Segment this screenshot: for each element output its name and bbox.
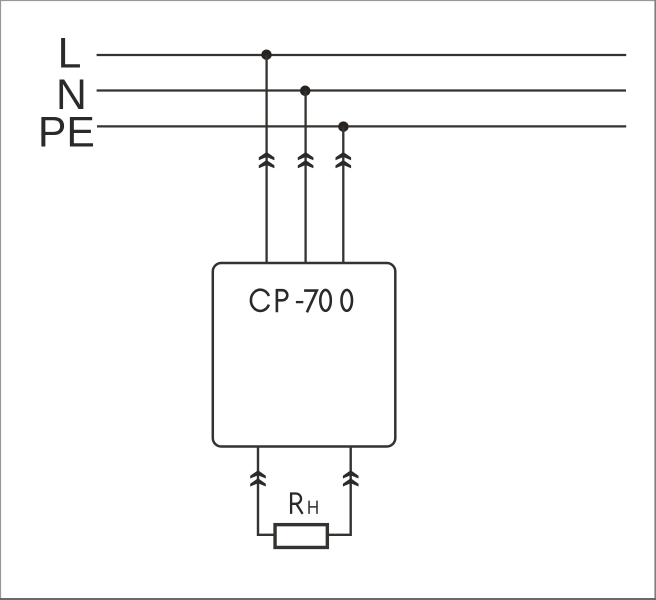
wire line L (phase) [97, 54, 627, 56]
H subscript [309, 501, 317, 514]
wire from N to CP-700 [304, 91, 306, 264]
label CP-700 (drawn glyphs) [251, 290, 352, 313]
node dot on L [261, 49, 272, 60]
wire line PE (protective earth) [97, 125, 626, 127]
label RH (drawn glyphs) [291, 494, 317, 514]
P [277, 290, 287, 312]
resistor RH (load) [275, 525, 327, 548]
0 [320, 290, 331, 311]
R [291, 494, 301, 514]
chevron arrows on left load wire [250, 470, 266, 486]
wire from L to CP-700 [265, 55, 267, 264]
chevron arrows on N wire [298, 152, 314, 168]
node dot on PE [338, 121, 349, 132]
wire from PE to CP-700 [342, 126, 344, 263]
chevron arrows on PE wire [336, 152, 352, 168]
node dot on N [300, 86, 311, 97]
wire line N (neutral) [97, 89, 626, 91]
svg-text:PE: PE [38, 109, 95, 157]
wire from CP-700 to load (right) [328, 447, 351, 535]
0 [342, 290, 353, 311]
dash [296, 301, 303, 303]
chevron arrows on L wire [259, 152, 275, 168]
C [251, 290, 269, 311]
chevron arrows on right load wire [343, 470, 359, 486]
wire from CP-700 to load (left) [258, 447, 275, 535]
7 [304, 291, 317, 313]
device box CP-700 [213, 263, 395, 447]
